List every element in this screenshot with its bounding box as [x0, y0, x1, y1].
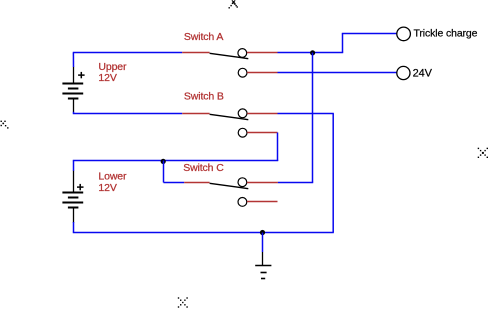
junction node A — [310, 50, 315, 55]
wire red stub right of B2 — [247, 132, 277, 134]
svg-text:Trickle charge: Trickle charge — [414, 28, 478, 40]
wire bottom ground rail — [73, 232, 334, 234]
wire battery B1 top lead (blue) — [72, 53, 74, 68]
mark bottom cursor — [178, 297, 188, 307]
switch C contact 1 — [238, 178, 247, 187]
wire lower battery - lead to bottom rail — [73, 222, 75, 233]
wire lower battery + rail (blue) — [73, 160, 278, 162]
svg-text:12V: 12V — [98, 72, 116, 84]
junction node B — [161, 159, 166, 164]
wire red stub left of switch B — [182, 113, 209, 115]
wire to switch C lever (blue) — [164, 182, 185, 184]
wire upper battery - to switch B (blue) — [73, 113, 182, 115]
wire red stub right of C2 (dead end) — [247, 201, 278, 203]
battery B1 plus sign — [78, 72, 85, 78]
svg-text:Switch B: Switch B — [184, 91, 224, 103]
junction node ground — [260, 230, 265, 235]
wire to trickle terminal — [342, 33, 397, 35]
switch C contact 2 — [238, 198, 247, 207]
battery B2 leads — [73, 171, 75, 223]
switch B lever — [210, 114, 249, 119]
wire A2 to 24V terminal (blue) — [278, 72, 397, 74]
wire lower battery top corner — [73, 161, 75, 171]
wire battery B1 bottom corner — [73, 112, 75, 114]
svg-text:12V: 12V — [98, 182, 116, 194]
svg-text:Switch A: Switch A — [184, 31, 223, 43]
wire junction B down — [163, 161, 165, 183]
battery B1 leads — [73, 67, 75, 112]
battery B2 plus sign — [77, 184, 84, 190]
switch A lever — [210, 53, 249, 58]
switch A contact 2 — [238, 68, 247, 77]
wire red stub left of switch C — [184, 182, 209, 184]
terminal 24V — [397, 66, 410, 79]
battery B2 (Lower 12V) — [62, 193, 83, 208]
svg-text:24V: 24V — [413, 68, 433, 80]
wire red stub left of switch A — [182, 52, 209, 54]
svg-text:Lower: Lower — [98, 170, 127, 182]
switch C lever — [210, 183, 249, 188]
wire C1 to junction A vertical (blue) — [278, 182, 313, 184]
battery B1 (Upper 12V) — [62, 84, 83, 99]
ground symbol — [255, 252, 271, 279]
wire junction A down to switch C contact line — [312, 53, 314, 183]
wire B2 down to lower battery + rail — [277, 133, 279, 162]
switch B contact 2 — [238, 128, 247, 137]
wire ground stem (blue) — [262, 233, 264, 253]
switch B contact 1 — [238, 109, 247, 118]
mark left cursor — [1, 121, 9, 129]
wire upper battery + to switch A — [73, 52, 182, 54]
switch A contact 1 — [238, 49, 247, 58]
svg-text:Switch C: Switch C — [183, 162, 224, 174]
wire red stub right of A1 — [247, 52, 278, 54]
mark right cursor — [478, 148, 488, 158]
wire red stub right of C1 — [247, 182, 278, 184]
mark top-middle cursor — [229, 3, 238, 9]
wire up to trickle level — [342, 34, 344, 53]
wire red stub right of B1 — [247, 113, 277, 115]
svg-text:Upper: Upper — [98, 61, 127, 73]
wire ground drop vertical — [332, 114, 334, 233]
wire A1 to junction and on (blue) — [278, 52, 344, 54]
terminal Trickle charge — [397, 27, 411, 41]
wire B1 to ground drop (blue) — [278, 113, 334, 115]
wire red stub right of A2 — [247, 72, 277, 74]
